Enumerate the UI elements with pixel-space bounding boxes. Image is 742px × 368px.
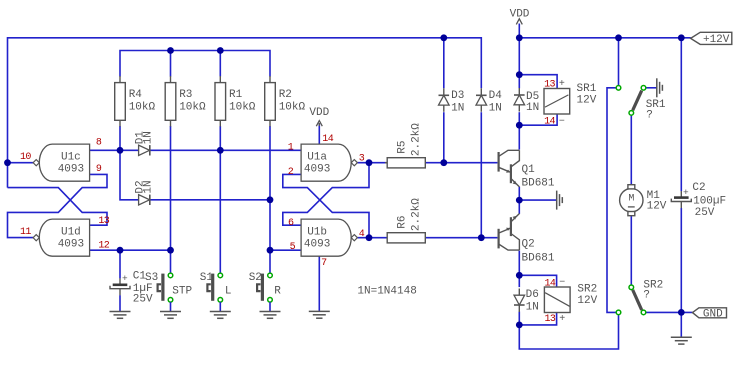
svg-text:8: 8 — [96, 138, 102, 149]
svg-text:1N: 1N — [489, 102, 502, 114]
svg-text:S2: S2 — [249, 272, 262, 284]
svg-text:4093: 4093 — [58, 164, 84, 176]
svg-text:GND: GND — [703, 309, 723, 321]
svg-text:R6: R6 — [397, 215, 409, 228]
svg-text:12: 12 — [98, 241, 109, 252]
svg-text:R3: R3 — [179, 89, 192, 101]
svg-text:U1c: U1c — [61, 151, 81, 163]
svg-text:14: 14 — [544, 117, 555, 128]
svg-text:1N: 1N — [451, 102, 464, 114]
svg-text:L: L — [225, 286, 232, 298]
svg-text:S1: S1 — [200, 272, 214, 284]
svg-text:U1a: U1a — [307, 151, 327, 163]
svg-text:7: 7 — [321, 258, 327, 269]
svg-text:Q2: Q2 — [522, 239, 535, 251]
svg-text:4093: 4093 — [304, 239, 330, 251]
svg-text:+: + — [683, 187, 689, 198]
svg-text:10kΩ: 10kΩ — [229, 101, 256, 113]
svg-text:10kΩ: 10kΩ — [129, 101, 156, 113]
svg-text:10kΩ: 10kΩ — [179, 101, 206, 113]
svg-text:STP: STP — [172, 286, 192, 298]
svg-text:2: 2 — [288, 167, 294, 178]
svg-text:+: + — [559, 314, 565, 325]
svg-text:1N: 1N — [143, 131, 155, 144]
svg-text:C2: C2 — [692, 182, 705, 194]
svg-text:R2: R2 — [279, 89, 292, 101]
svg-text:12V: 12V — [577, 295, 597, 307]
svg-text:SR2: SR2 — [577, 283, 597, 295]
svg-text:1N: 1N — [526, 301, 539, 313]
svg-text:U1d: U1d — [61, 226, 81, 238]
svg-text:VDD: VDD — [309, 107, 329, 119]
svg-text:1N: 1N — [526, 102, 539, 114]
svg-text:9: 9 — [96, 164, 102, 175]
svg-text:25V: 25V — [695, 207, 715, 219]
svg-text:12V: 12V — [577, 95, 597, 107]
svg-text:1: 1 — [288, 143, 294, 154]
svg-text:M: M — [628, 194, 634, 205]
svg-text:?: ? — [646, 109, 653, 121]
svg-text:5: 5 — [290, 242, 296, 253]
svg-text:13: 13 — [544, 314, 555, 325]
svg-text:VDD: VDD — [510, 9, 530, 21]
svg-text:4093: 4093 — [304, 164, 330, 176]
svg-text:2.2kΩ: 2.2kΩ — [410, 198, 422, 231]
svg-text:2.2kΩ: 2.2kΩ — [410, 123, 422, 156]
svg-text:12V: 12V — [647, 201, 667, 213]
svg-text:14: 14 — [544, 279, 555, 290]
svg-text:D5: D5 — [526, 91, 539, 103]
svg-text:25V: 25V — [133, 294, 153, 306]
svg-text:1N: 1N — [143, 180, 155, 193]
svg-text:4093: 4093 — [58, 239, 84, 251]
svg-text:SR1: SR1 — [577, 83, 597, 95]
svg-text:6: 6 — [288, 218, 294, 229]
svg-text:+12V: +12V — [703, 34, 730, 46]
svg-text:10: 10 — [20, 152, 31, 163]
svg-text:R4: R4 — [129, 89, 143, 101]
svg-text:−: − — [559, 116, 565, 127]
svg-text:100µF: 100µF — [693, 195, 726, 207]
svg-text:U1b: U1b — [307, 226, 327, 238]
svg-text:BD681: BD681 — [522, 177, 555, 189]
svg-text:D3: D3 — [451, 90, 464, 102]
svg-text:4: 4 — [359, 229, 365, 240]
svg-text:R5: R5 — [397, 140, 409, 153]
svg-text:S3: S3 — [145, 272, 158, 284]
svg-text:13: 13 — [98, 216, 109, 227]
svg-text:3: 3 — [359, 154, 365, 165]
svg-text:D4: D4 — [489, 90, 503, 102]
svg-text:14: 14 — [322, 134, 333, 145]
svg-text:D6: D6 — [526, 289, 539, 301]
svg-text:+: + — [559, 79, 565, 90]
svg-text:1N=1N4148: 1N=1N4148 — [357, 285, 416, 297]
svg-text:Q1: Q1 — [522, 164, 536, 176]
svg-text:13: 13 — [544, 79, 555, 90]
svg-text:R: R — [274, 286, 281, 298]
svg-text:10kΩ: 10kΩ — [279, 101, 306, 113]
svg-text:R1: R1 — [229, 89, 243, 101]
svg-text:11: 11 — [20, 227, 31, 238]
svg-text:BD681: BD681 — [522, 252, 555, 264]
svg-text:−: − — [559, 277, 565, 288]
svg-text:+: + — [122, 273, 128, 284]
svg-text:?: ? — [643, 289, 650, 301]
